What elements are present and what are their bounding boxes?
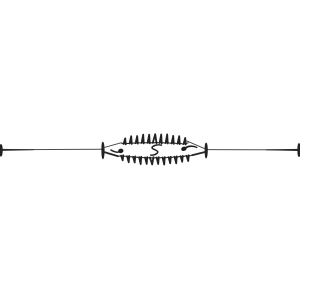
- wire bottom-left lead: [104, 152, 119, 157]
- resistor R1 top branch connector wire: [121, 142, 189, 144]
- node B (right junction tick): [205, 143, 208, 159]
- terminal left: [0, 144, 3, 157]
- wire left segment: [1, 149, 103, 151]
- wire right segment: [207, 149, 299, 151]
- terminal right: [297, 143, 300, 157]
- resistor R2 bottom branch zigzag teeth: [121, 155, 189, 164]
- wire top-left lead: [104, 143, 122, 148]
- resistor R2 bottom branch connector wire: [119, 155, 192, 158]
- wire top-right lead: [187, 141, 206, 149]
- current arrow left (comma mark): [111, 148, 124, 154]
- label S (switch): [151, 145, 162, 155]
- wire bottom-right lead: [192, 152, 206, 156]
- current arrow right (comma mark): [181, 145, 198, 151]
- resistor R1 top branch zigzag teeth: [124, 134, 186, 144]
- node A (left junction tick): [101, 142, 104, 160]
